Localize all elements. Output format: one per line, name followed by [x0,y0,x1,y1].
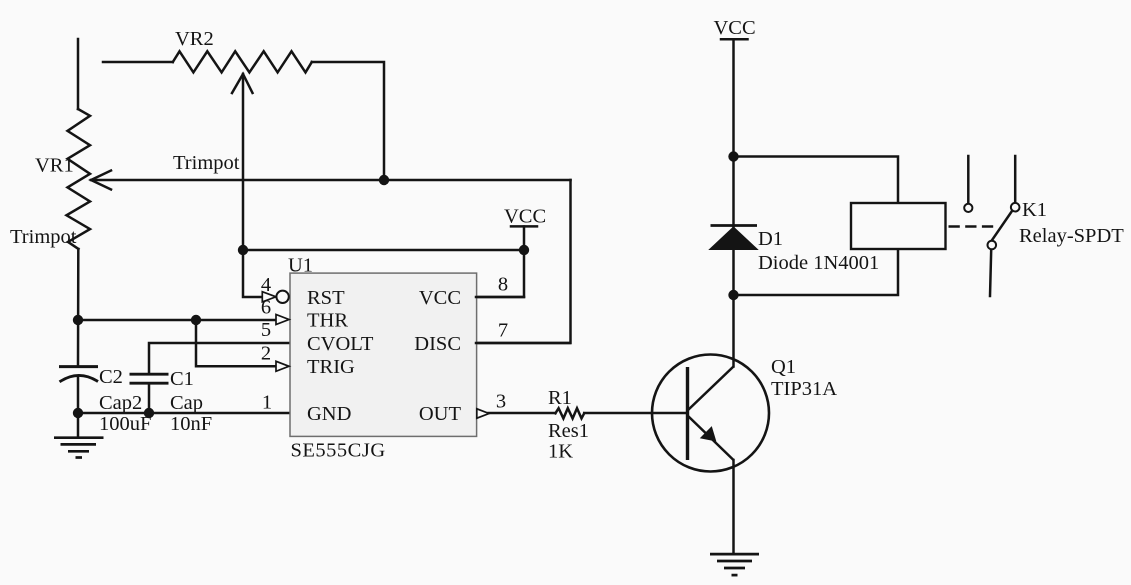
svg-text:3: 3 [496,391,506,413]
svg-text:RST: RST [307,287,345,309]
svg-text:K1: K1 [1022,199,1047,221]
svg-text:Q1: Q1 [771,356,796,378]
svg-text:VCC: VCC [504,206,546,228]
svg-text:VR1: VR1 [35,155,74,177]
svg-text:Diode 1N4001: Diode 1N4001 [758,252,879,274]
svg-text:TIP31A: TIP31A [771,378,837,400]
svg-text:U1: U1 [288,255,313,277]
svg-text:D1: D1 [758,228,783,250]
svg-text:VR2: VR2 [175,28,214,50]
svg-text:Cap2: Cap2 [99,392,142,414]
svg-text:TRIG: TRIG [307,356,355,378]
svg-text:DISC: DISC [414,333,461,355]
svg-text:Trimpot: Trimpot [10,226,77,248]
svg-text:10nF: 10nF [170,413,212,435]
svg-text:Res1: Res1 [548,420,589,442]
svg-text:Cap: Cap [170,392,203,414]
svg-text:Trimpot: Trimpot [173,152,240,174]
svg-text:VCC: VCC [714,17,756,39]
svg-text:R1: R1 [548,387,572,409]
svg-text:4: 4 [261,274,271,296]
svg-text:1: 1 [262,391,272,413]
svg-text:Relay-SPDT: Relay-SPDT [1019,225,1124,247]
svg-text:5: 5 [261,319,271,341]
svg-text:C2: C2 [99,366,123,388]
svg-text:8: 8 [498,274,508,296]
svg-text:OUT: OUT [419,403,462,425]
svg-text:1K: 1K [548,441,573,463]
svg-text:2: 2 [261,343,271,365]
svg-text:7: 7 [498,320,508,342]
svg-text:GND: GND [307,403,351,425]
svg-text:100uF: 100uF [99,413,151,435]
svg-text:6: 6 [261,297,271,319]
svg-text:CVOLT: CVOLT [307,333,374,355]
svg-text:SE555CJG: SE555CJG [291,440,386,462]
svg-text:C1: C1 [170,368,194,390]
svg-text:THR: THR [307,310,348,332]
svg-text:VCC: VCC [419,287,461,309]
